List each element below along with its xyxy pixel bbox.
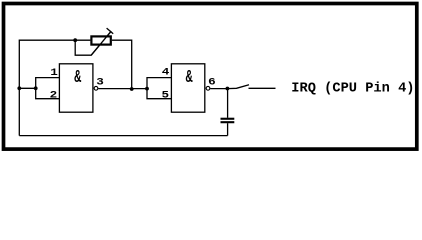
svg-text:&: & [186,66,193,88]
svg-text:6: 6 [208,77,216,89]
svg-text:2: 2 [50,90,58,102]
svg-text:1: 1 [50,67,58,79]
svg-text:4: 4 [162,67,170,79]
svg-text:5: 5 [162,89,170,101]
svg-text:IRQ (CPU Pin 4): IRQ (CPU Pin 4) [291,82,414,97]
svg-text:3: 3 [96,77,104,89]
svg-text:&: & [74,66,81,88]
